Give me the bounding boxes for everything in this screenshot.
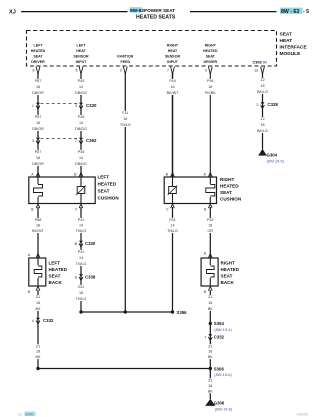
svg-text:Z1: Z1 (208, 295, 212, 299)
module internal label pin 6 left heated seat driver (31, 44, 46, 64)
wire label c2 low P45 14 DB/DG (74, 150, 88, 166)
svg-text:18: 18 (208, 85, 212, 89)
svg-text:F11: F11 (122, 111, 128, 115)
svg-text:2: 2 (257, 103, 259, 107)
svg-text:LEFT: LEFT (98, 175, 110, 180)
svg-text:SEAT: SEAT (33, 54, 43, 58)
wire label c1 low P87 18 DB/OR (31, 150, 45, 166)
svg-text:18: 18 (36, 224, 40, 228)
svg-text:LEFT: LEFT (34, 44, 44, 48)
svg-text:FEED: FEED (121, 60, 131, 64)
svg-text:5: 5 (76, 69, 78, 73)
left heated seat back box (29, 258, 46, 286)
wire c2 cushion down to bus1 (80, 207, 82, 312)
svg-text:14: 14 (79, 156, 83, 160)
wire label c5 P94 18 PK/BK (203, 79, 217, 95)
svg-text:IN: IN (263, 60, 267, 64)
svg-text:BK: BK (208, 389, 213, 393)
wire label c5 Z1 18 BK (203, 295, 217, 311)
svg-text:SEAT: SEAT (280, 32, 293, 38)
svg-text:14: 14 (170, 224, 174, 228)
svg-text:RIGHT: RIGHT (220, 177, 234, 182)
splice S356 (171, 310, 174, 313)
svg-text:18: 18 (208, 384, 212, 388)
svg-text:C330: C330 (85, 241, 96, 246)
pin 3 terminal fork (208, 67, 212, 74)
svg-text:CUSHION: CUSHION (220, 197, 242, 202)
pin 6 terminal fork (36, 67, 40, 74)
svg-text:18: 18 (36, 301, 40, 305)
svg-text:BACK: BACK (49, 280, 63, 285)
svg-text:DB/OR: DB/OR (32, 162, 44, 166)
svg-text:SENSOR: SENSOR (73, 54, 89, 58)
svg-text:Z1: Z1 (208, 379, 212, 383)
svg-text:14: 14 (79, 256, 83, 260)
svg-text:S354: S354 (214, 321, 225, 326)
svg-text:S306: S306 (214, 366, 225, 371)
svg-text:8W - 63: 8W - 63 (281, 9, 299, 15)
wire label c1 Z1 18 BK (31, 295, 45, 311)
svg-text:14: 14 (79, 121, 83, 125)
svg-text:SEAT: SEAT (220, 190, 232, 195)
right heated seat cushion box (164, 177, 216, 204)
inline connector C362 at c1 (36, 138, 40, 141)
wire c5 back box down to ground (209, 290, 211, 399)
wire c4 cushion down to bus1 (172, 207, 174, 312)
wire label c2 P41 14 TN/LG (74, 218, 88, 233)
svg-text:8: 8 (75, 276, 77, 280)
svg-text:14: 14 (79, 224, 83, 228)
svg-text:C362: C362 (86, 138, 97, 143)
splice S306 (209, 367, 212, 370)
svg-text:INPUT: INPUT (76, 60, 88, 64)
svg-text:P87: P87 (35, 115, 42, 119)
wire label c1 mid P87 18 DB/OR (31, 115, 45, 131)
pin 13 terminal fork (261, 67, 265, 74)
bus1 junction dot c2 (79, 310, 82, 313)
wire c308 to ground (262, 73, 264, 149)
header highlight 8W-63 (130, 7, 143, 12)
svg-text:HEAT: HEAT (280, 38, 293, 44)
wire c2 module to cushion (80, 73, 82, 177)
wire label c4 P44 18 BK/WT (166, 79, 180, 95)
svg-text:SEAT: SEAT (49, 273, 61, 278)
svg-text:HEATED: HEATED (203, 49, 218, 53)
svg-text:Z1: Z1 (36, 344, 40, 348)
wire label c1 P87 18 DB/OR (31, 79, 45, 95)
wire label c1 P88 18 BK/WT (31, 218, 45, 233)
bus2 junction dot c1 (36, 367, 39, 370)
svg-text:C328: C328 (268, 102, 279, 107)
right cushion heater element (209, 177, 211, 184)
bus2 ground bus (38, 368, 210, 370)
svg-text:IGNITION: IGNITION (117, 54, 133, 58)
svg-text:HEATED: HEATED (221, 267, 240, 272)
svg-text:LEFT: LEFT (49, 260, 61, 265)
module internal label pin 5 left heat sensor input (73, 44, 89, 64)
svg-text:INTERFACE: INTERFACE (280, 44, 308, 50)
svg-text:(8W-15-5): (8W-15-5) (267, 159, 285, 164)
left cushion heater element (37, 177, 39, 184)
inline connector C320 dashed link (41, 103, 79, 105)
svg-text:TN/LG: TN/LG (76, 297, 87, 301)
svg-text:7: 7 (75, 139, 77, 143)
module internal label pin 3 right heated seat driver (203, 44, 218, 64)
header highlight 8W - 63 (280, 8, 302, 14)
svg-text:4: 4 (32, 319, 34, 323)
wire c5 cushion to back box (209, 207, 211, 258)
svg-text:7: 7 (167, 69, 169, 73)
svg-text:C332: C332 (214, 335, 225, 340)
svg-text:DRIVER: DRIVER (204, 60, 218, 64)
right back heater element (209, 258, 211, 265)
seat heat interface module U1 dashed box (27, 31, 277, 67)
svg-text:POWER SEAT: POWER SEAT (144, 8, 175, 13)
svg-text:(8W-15-4): (8W-15-4) (214, 327, 232, 332)
svg-text:18: 18 (123, 117, 127, 121)
svg-text:18: 18 (36, 85, 40, 89)
header right rule (190, 11, 277, 13)
svg-text:P41: P41 (169, 218, 176, 222)
svg-text:P94: P94 (207, 79, 214, 83)
bus1 sensor return bus (81, 311, 173, 313)
right heated seat back box (201, 258, 218, 286)
wire c1 back box down to bus2 (37, 290, 39, 369)
svg-text:DB/OR: DB/OR (32, 91, 44, 95)
svg-text:P45: P45 (78, 150, 85, 154)
svg-text:HEATED SEATS: HEATED SEATS (136, 14, 176, 20)
svg-text:18: 18 (79, 291, 83, 295)
svg-text:P88: P88 (35, 218, 42, 222)
svg-text:18: 18 (260, 123, 264, 127)
svg-text:3: 3 (75, 104, 77, 108)
svg-text:BK: BK (208, 355, 213, 359)
svg-text:BK/LG: BK/LG (257, 129, 268, 133)
svg-text:BK/WT: BK/WT (167, 91, 179, 95)
svg-text:18: 18 (208, 224, 212, 228)
inline connector C320 at c1 (36, 103, 40, 106)
svg-text:SEAT: SEAT (221, 273, 233, 278)
svg-text:BK: BK (36, 307, 41, 311)
svg-text:18: 18 (36, 121, 40, 125)
svg-text:TN/LG: TN/LG (167, 229, 178, 233)
svg-text:XJ: XJ (9, 10, 16, 16)
svg-text:RIGHT: RIGHT (205, 44, 217, 48)
right cushion temperature sensor (172, 177, 174, 186)
wire label c2 mid P45 14 DB/DG (74, 115, 88, 131)
svg-text:1: 1 (32, 104, 34, 108)
svg-text:P87: P87 (35, 150, 42, 154)
svg-text:HEAT: HEAT (76, 49, 86, 53)
svg-text:RIGHT: RIGHT (221, 260, 235, 265)
ground G306 (205, 399, 215, 406)
svg-text:JX8045: JX8045 (296, 413, 308, 417)
wire c1 module to cushion (37, 73, 39, 177)
svg-text:SEAT: SEAT (206, 54, 216, 58)
svg-text:P42: P42 (207, 218, 214, 222)
wire label c2 P41 14 TN/LG mid (74, 250, 88, 266)
inline connector C362 at c2 (79, 138, 83, 141)
svg-text:18: 18 (36, 156, 40, 160)
wire label c5 P42 18 OR (203, 218, 217, 233)
svg-text:P44: P44 (169, 79, 176, 83)
svg-text:LEFT: LEFT (77, 44, 87, 48)
svg-text:SENSOR: SENSOR (165, 54, 181, 58)
svg-text:DB/OR: DB/OR (32, 127, 44, 131)
svg-text:(8W-15-6): (8W-15-6) (215, 407, 233, 412)
svg-text:HEATED: HEATED (98, 182, 117, 187)
svg-text:Z1: Z1 (208, 344, 212, 348)
wire c3 ignition feed down to splice bus (124, 73, 126, 312)
left cushion temperature sensor (80, 177, 82, 186)
svg-text:18: 18 (208, 301, 212, 305)
inline connector C328 (261, 102, 265, 105)
svg-text:BK: BK (36, 355, 41, 359)
wire label c2 P45 14 DB/DG (74, 79, 88, 95)
module internal label pin 7 right heat sensor input (165, 44, 181, 64)
pin 2 terminal fork (123, 67, 127, 74)
inline connector C330 (79, 241, 83, 244)
svg-text:18: 18 (36, 350, 40, 354)
ground G304 (258, 149, 267, 156)
wire c1 cushion to back box (37, 207, 39, 258)
wire c4 module to cushion (172, 73, 174, 177)
wire label c3 F11 18 TN/LG (118, 111, 132, 127)
svg-text:TN/LG: TN/LG (76, 262, 87, 266)
wire label c4 P41 14 TN/LG (166, 218, 180, 233)
svg-text:HEATED: HEATED (49, 267, 68, 272)
svg-text:SEAT: SEAT (98, 189, 110, 194)
svg-text:BK/LG: BK/LG (257, 90, 268, 94)
svg-text:PK/BK: PK/BK (205, 91, 216, 95)
svg-text:DB/DG: DB/DG (75, 91, 87, 95)
svg-text:C308: C308 (253, 60, 262, 64)
svg-text:8W-63: 8W-63 (130, 8, 144, 13)
svg-text:Z1: Z1 (36, 295, 40, 299)
svg-text:3: 3 (32, 139, 34, 143)
pin 5 terminal fork (79, 67, 83, 74)
wire label c2 Z41 18 TN/LG low (74, 285, 88, 301)
module internal label pin 2 ignition feed (117, 54, 133, 63)
svg-text:HEAT: HEAT (168, 49, 178, 53)
pin 7 terminal fork (171, 67, 175, 74)
svg-text:HEATED: HEATED (220, 184, 239, 189)
svg-text:CUSHION: CUSHION (98, 195, 120, 200)
inline connector C362 dashed link (41, 138, 79, 140)
svg-text:DB/DG: DB/DG (75, 127, 87, 131)
svg-text:2: 2 (120, 69, 122, 73)
svg-text:Z2: Z2 (260, 78, 264, 82)
svg-text:P87: P87 (35, 79, 42, 83)
svg-text:18: 18 (170, 85, 174, 89)
wire label c308 Z2 18 BK/LG (256, 78, 270, 94)
inline connector C338 (79, 274, 83, 277)
wire label c1 Z1 18 BK low (31, 344, 45, 359)
svg-text:BK/WT: BK/WT (32, 229, 44, 233)
bus1 junction dot c3 (124, 310, 127, 313)
left heated seat cushion box (29, 177, 95, 204)
svg-text:Z41: Z41 (78, 285, 84, 289)
svg-text:- 5: - 5 (303, 9, 309, 15)
svg-text:OR: OR (208, 229, 214, 233)
svg-text:RIGHT: RIGHT (167, 44, 179, 48)
svg-text:TN/LG: TN/LG (76, 229, 87, 233)
svg-text:P45: P45 (78, 115, 85, 119)
svg-text:P45: P45 (78, 79, 85, 83)
svg-text:13: 13 (254, 69, 258, 73)
svg-text:G304: G304 (267, 152, 278, 157)
svg-text:C338: C338 (85, 275, 96, 280)
svg-text:C332: C332 (43, 318, 54, 323)
svg-text:BK: BK (208, 307, 213, 311)
inline connector C332 right (208, 334, 212, 337)
splice S354 (209, 322, 212, 325)
inline connector C320 at c2 (79, 103, 83, 106)
wire label c5 Z1 18 BK mid (203, 344, 217, 359)
svg-text:G306: G306 (214, 400, 225, 405)
svg-text:7: 7 (204, 336, 206, 340)
svg-text:XJ: XJ (18, 413, 22, 417)
header left rule (21, 11, 128, 13)
svg-text:18: 18 (208, 350, 212, 354)
wire label c5 Z1 18 BK bottom (203, 378, 217, 393)
svg-text:804B: 804B (25, 413, 34, 417)
wire label c308 lower Z2 18 BK/LG (256, 117, 270, 133)
svg-text:6: 6 (33, 69, 35, 73)
svg-text:DRIVER: DRIVER (31, 60, 45, 64)
svg-text:DB/DG: DB/DG (75, 162, 87, 166)
svg-text:BACK: BACK (221, 280, 235, 285)
svg-text:P41: P41 (78, 218, 85, 222)
svg-text:14: 14 (79, 85, 83, 89)
svg-text:C320: C320 (86, 103, 97, 108)
svg-text:Z2: Z2 (260, 117, 264, 121)
svg-text:P41: P41 (78, 250, 85, 254)
svg-text:MODULE: MODULE (280, 51, 302, 57)
svg-text:HEATED: HEATED (31, 49, 46, 53)
left back heater element (37, 258, 39, 265)
svg-text:S356: S356 (177, 310, 188, 315)
wire c5 module to cushion (209, 73, 211, 177)
svg-text:TN/LG: TN/LG (120, 123, 131, 127)
svg-text:INPUT: INPUT (167, 60, 179, 64)
svg-text:3: 3 (205, 69, 207, 73)
svg-text:18: 18 (260, 84, 264, 88)
svg-text:(8W-15-6): (8W-15-6) (214, 372, 232, 377)
inline connector C332 left (36, 318, 40, 321)
